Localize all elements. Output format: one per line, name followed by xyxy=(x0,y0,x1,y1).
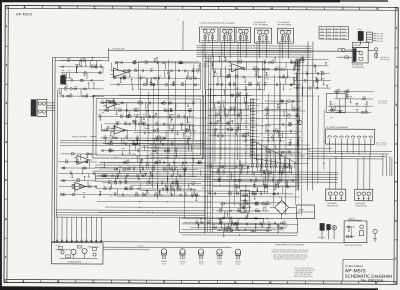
record jack connector xyxy=(31,99,55,116)
dashed function box left xyxy=(138,62,200,90)
op-amp IC1-a xyxy=(103,100,120,108)
right routing wires xyxy=(308,151,392,189)
pilot lamp section cluster xyxy=(293,57,330,89)
main board power box xyxy=(51,243,103,264)
speed detector cluster xyxy=(207,90,252,142)
left vertical bus wires xyxy=(52,57,109,243)
FG amp block xyxy=(336,47,377,63)
right column tiny notes 2 xyxy=(378,100,387,104)
regulator box xyxy=(297,205,315,219)
clutch drive block 1 box xyxy=(199,27,218,43)
diode bridge DB1 xyxy=(270,196,296,219)
servo IC right components cluster xyxy=(263,100,302,157)
4-ch sensor block 1 box xyxy=(254,28,271,43)
motor drive mid cluster xyxy=(332,89,374,113)
FG amp caption xyxy=(352,63,365,68)
wire from power box xyxy=(103,244,232,250)
sheet label AP-M5/S xyxy=(16,12,32,16)
clutch drive block 2 box xyxy=(220,27,235,43)
main board separator line xyxy=(52,242,345,247)
scan edge top band xyxy=(0,0,388,2)
ST power connector box xyxy=(325,127,374,155)
servo amp row cluster xyxy=(110,57,201,90)
title text model xyxy=(345,268,367,274)
bottom notes paragraph 1 xyxy=(271,249,308,253)
pin label rows xyxy=(202,58,213,68)
right column tiny notes 3 xyxy=(376,142,388,146)
feeder wires into main board box xyxy=(56,210,205,243)
servo IC pin field cluster xyxy=(244,98,291,172)
phase comparator cluster xyxy=(98,99,196,157)
op-amp IC4-b xyxy=(72,182,89,190)
TM power transistor box 2 xyxy=(355,189,373,207)
power plug block xyxy=(357,28,363,45)
4-ch sensor block 2 box xyxy=(277,28,293,43)
feed wire J1 xyxy=(176,19,183,50)
op-amp IC3-a xyxy=(228,64,245,72)
dashed function box right xyxy=(205,61,265,90)
phase comparator outlined box outer xyxy=(93,95,204,158)
muting section cluster xyxy=(206,161,297,199)
op-amp IC2-a xyxy=(110,68,129,77)
clutch drive block 3 box xyxy=(236,27,251,43)
bottom notes paragraph 2 xyxy=(273,254,308,260)
terminal strip block xyxy=(366,32,384,43)
choke component dark blob xyxy=(60,75,66,84)
oscillator section cluster xyxy=(58,57,104,85)
lower outlined box xyxy=(180,218,298,233)
lower box cluster xyxy=(183,218,287,232)
AC inlet cluster xyxy=(318,223,336,239)
speed sense box xyxy=(326,94,345,120)
phase comparator outlined box inner xyxy=(96,99,201,156)
bottom notes paragraph 3 xyxy=(294,268,315,279)
scan edge bottom band xyxy=(0,286,378,290)
vertical feeder wires right xyxy=(302,41,313,190)
heavy vertical feeder pair xyxy=(297,60,302,190)
grid reference ticks and letters bottom xyxy=(22,279,378,285)
FG amp label box xyxy=(352,42,368,47)
speed selector table xyxy=(319,27,349,40)
bus label xyxy=(112,47,124,50)
external transistor Q31 xyxy=(373,229,377,241)
grid reference ticks and letters top xyxy=(24,5,380,11)
right edge small notes xyxy=(380,57,390,61)
labels above clutch drive boxes xyxy=(200,22,292,27)
interconnect wire mesh xyxy=(60,42,334,236)
op-amp IC1-b xyxy=(111,126,128,134)
power section cluster xyxy=(216,201,272,236)
lower amp row cluster xyxy=(96,157,203,201)
power fuse box xyxy=(344,221,367,247)
reg label xyxy=(348,218,362,220)
wires from driver boxes to bus xyxy=(196,42,311,58)
drive logic row cluster xyxy=(206,56,305,90)
transistor case outlines row xyxy=(161,249,241,266)
title block frame xyxy=(343,259,394,281)
title text schematic diagram xyxy=(345,274,393,279)
scan edge left band xyxy=(0,0,2,290)
left lower amp cluster xyxy=(58,153,98,198)
relay box xyxy=(240,190,249,212)
main top bus wire xyxy=(108,48,360,63)
signal bus bundle xyxy=(95,171,338,182)
test point cluster xyxy=(58,83,104,98)
title text turntable xyxy=(345,264,363,268)
op-amp IC4-a xyxy=(74,155,92,164)
speed control label xyxy=(72,136,96,138)
TM power transistor box 1 xyxy=(326,189,346,207)
title text number xyxy=(361,279,384,283)
